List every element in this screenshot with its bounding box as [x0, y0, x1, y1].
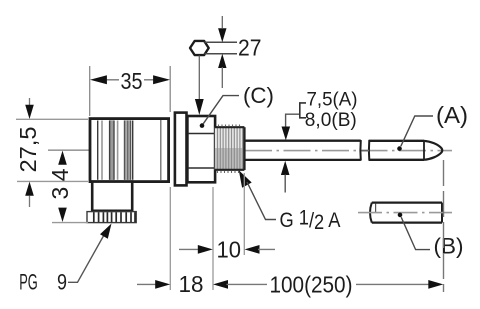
svg-text:(C): (C) — [243, 83, 274, 108]
body ribs — [98, 120, 133, 180]
dim 100(250) — [213, 280, 443, 289]
svg-text:35: 35 — [121, 68, 143, 94]
dim 34 — [52, 151, 88, 223]
svg-text:(A): (A) — [436, 102, 468, 128]
body inner line — [160, 120, 162, 180]
extension line thread end — [243, 173, 245, 255]
center line variant B — [358, 212, 452, 214]
extension line probe tip — [443, 160, 445, 292]
svg-text:PG: PG — [19, 270, 38, 295]
hex nut — [187, 116, 215, 182]
cable gland PG9 ribbed — [87, 212, 136, 223]
dim 27 arrows — [218, 16, 226, 88]
svg-text:(B): (B) — [434, 234, 464, 259]
hex bolt symbol (wrench size) — [190, 41, 237, 55]
probe tube section 2 with tip — [362, 140, 443, 161]
svg-text:7,5(A): 7,5(A) — [307, 89, 358, 111]
svg-text:27: 27 — [238, 35, 262, 61]
svg-text:100(250): 100(250) — [270, 271, 353, 297]
label (C) leader — [200, 96, 239, 128]
svg-text:G 1/2 A: G 1/2 A — [280, 207, 341, 235]
svg-text:10: 10 — [217, 237, 242, 263]
probe tip cone — [424, 141, 442, 160]
label G 1/2 A leader — [239, 170, 276, 219]
cable entry lower box — [92, 182, 132, 211]
probe tube section 1 — [245, 140, 361, 161]
dim 18 — [137, 280, 170, 289]
flange — [175, 113, 187, 186]
dim 10 — [179, 245, 275, 254]
svg-text:9: 9 — [57, 270, 67, 295]
dim 27,5 — [16, 98, 88, 207]
leader hex symbol to nut — [195, 56, 204, 116]
svg-text:18: 18 — [179, 271, 204, 297]
dim 7,5/8,0 diameter arrows — [281, 103, 306, 193]
center line main axis — [48, 150, 452, 151]
label (A) leader — [397, 116, 433, 151]
extension line hex right — [212, 187, 214, 290]
leader PG9 — [68, 224, 112, 283]
svg-text:27,5: 27,5 — [15, 127, 41, 173]
svg-text:8,0(B): 8,0(B) — [305, 109, 357, 131]
dim 35 — [90, 66, 171, 116]
bracket — [300, 103, 306, 118]
probe variant B tube — [370, 203, 442, 223]
thread G1/2 — [215, 125, 245, 174]
connector body — [90, 119, 169, 182]
extension line body right — [169, 187, 171, 290]
label (B) leader — [398, 213, 430, 250]
